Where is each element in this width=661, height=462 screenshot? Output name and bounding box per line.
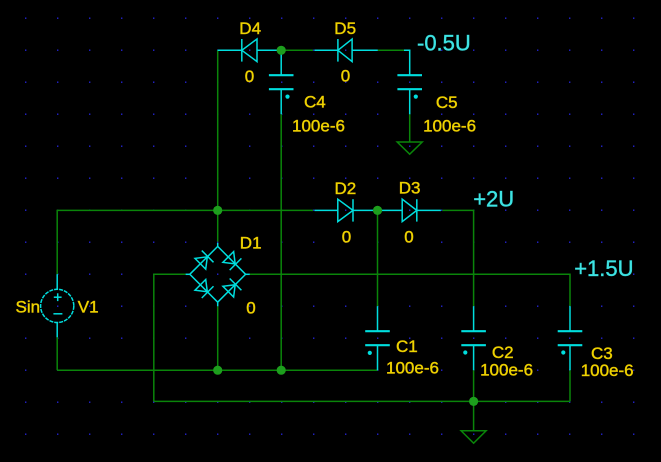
svg-text:D4: D4 [239, 19, 261, 38]
svg-text:C4: C4 [304, 93, 326, 112]
svg-text:100e-6: 100e-6 [292, 117, 345, 136]
wire left vertical to ground rail [153, 274, 155, 402]
junction bottom rail bridge [213, 366, 222, 375]
svg-text:0: 0 [342, 227, 351, 246]
capacitor C3 [558, 306, 583, 370]
diode D2 [315, 199, 378, 221]
svg-text:V1: V1 [78, 297, 99, 316]
bridge rectifier D1 [186, 243, 250, 306]
svg-text:+2U: +2U [473, 186, 514, 211]
svg-text:0: 0 [341, 67, 350, 86]
wire bridge top vertical [217, 210, 219, 241]
junction bottom rail C4 [277, 366, 286, 375]
ground under C2 [461, 401, 486, 443]
wire +1.5U rail right [250, 273, 570, 275]
svg-text:C3: C3 [591, 344, 613, 363]
diode D4 [218, 39, 282, 62]
svg-text:D5: D5 [334, 19, 356, 38]
svg-text:0: 0 [246, 298, 255, 317]
wire C2 bottom vertical [473, 370, 475, 401]
svg-text:0: 0 [404, 227, 413, 246]
capacitor C5 [397, 50, 422, 114]
svg-text:0: 0 [245, 67, 254, 86]
svg-text:Sin: Sin [16, 297, 41, 316]
wire bottom rail V1 to C1 [57, 369, 377, 371]
svg-text:D2: D2 [335, 179, 357, 198]
junction D2 D3 C1 [373, 206, 382, 215]
wire D4 to D5 [281, 49, 313, 51]
wire D3 to C2 corner [442, 210, 473, 306]
wire C4 bottom vertical [280, 114, 282, 370]
capacitor C1 [365, 306, 390, 370]
ground under C5 [397, 142, 422, 154]
svg-text:-0.5U: -0.5U [417, 31, 471, 56]
junction ground rail C2 [469, 397, 478, 406]
svg-text:100e-6: 100e-6 [386, 358, 439, 377]
wire V1 bottom vertical [56, 337, 58, 371]
wire C3 bottom vertical [569, 370, 571, 401]
svg-text:C5: C5 [436, 93, 458, 112]
voltage source V1 [41, 274, 74, 337]
wire ground rail [154, 400, 570, 402]
wire C5 to ground [409, 114, 411, 142]
wire bridge bottom vertical [217, 306, 219, 370]
junction top rail bridge [213, 206, 222, 215]
svg-text:100e-6: 100e-6 [480, 360, 533, 379]
wire D5 to C5 corner [378, 49, 404, 51]
svg-text:100e-6: 100e-6 [581, 361, 634, 380]
wire top rail V1 to D2 [57, 209, 313, 211]
capacitor C4 [269, 50, 294, 114]
wire C1 top vertical [377, 210, 379, 306]
svg-text:D1: D1 [240, 233, 262, 252]
capacitor C2 [461, 306, 486, 370]
wire C3 top vertical [569, 274, 571, 307]
wire D4 left vertical [217, 50, 219, 210]
wire V1 top vertical [56, 210, 58, 275]
svg-text:+1.5U: +1.5U [574, 256, 633, 281]
junction D4 D5 C4 [277, 46, 286, 55]
svg-text:D3: D3 [399, 179, 421, 198]
wire +1.5U rail left stub [154, 273, 186, 275]
diode D3 [378, 199, 441, 221]
svg-text:C1: C1 [396, 337, 418, 356]
svg-text:100e-6: 100e-6 [423, 117, 476, 136]
diode D5 [315, 39, 378, 62]
